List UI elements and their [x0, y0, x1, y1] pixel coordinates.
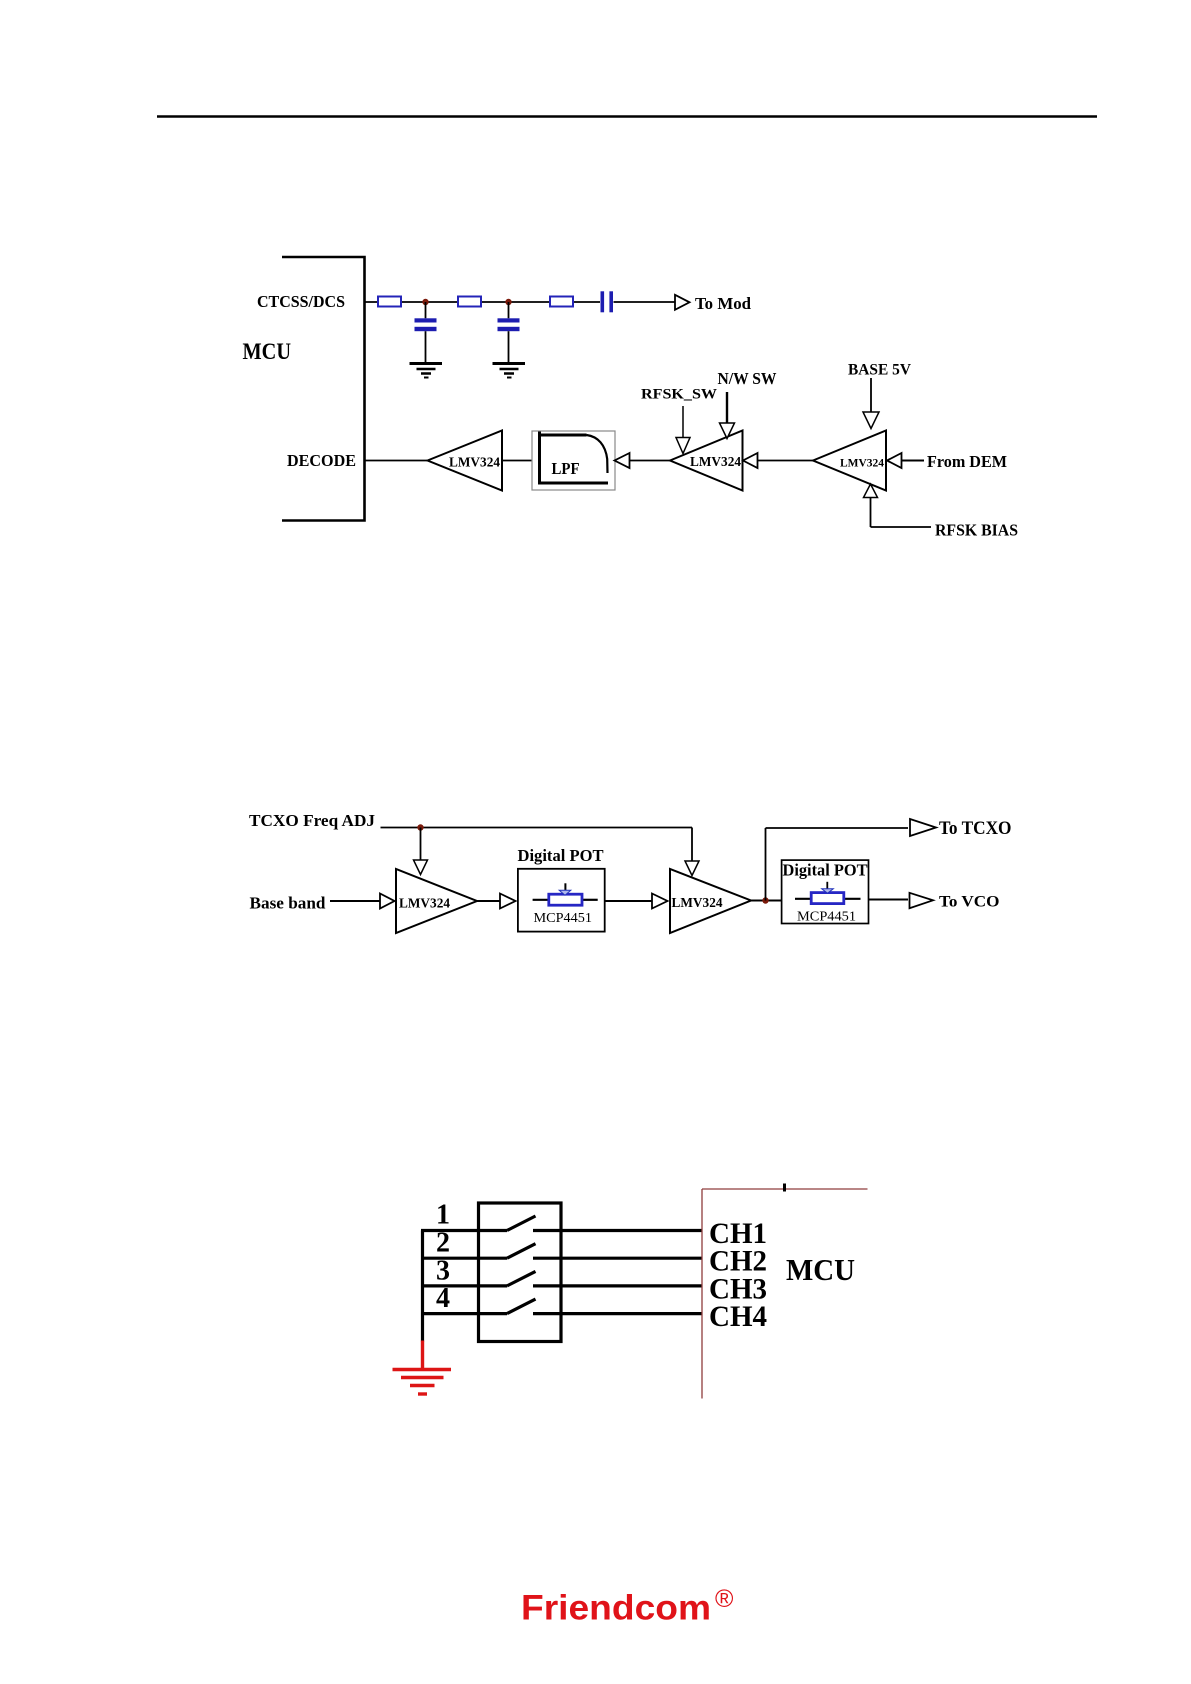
svg-text:Digital POT: Digital POT [518, 846, 604, 865]
svg-text:DECODE: DECODE [287, 451, 356, 470]
svg-text:2: 2 [436, 1228, 450, 1259]
svg-text:LMV324: LMV324 [840, 456, 884, 470]
svg-text:MCP4451: MCP4451 [534, 911, 593, 926]
svg-text:Digital POT: Digital POT [783, 861, 868, 880]
svg-text:LMV324: LMV324 [449, 455, 500, 470]
svg-text:LMV324: LMV324 [672, 895, 723, 910]
svg-text:To VCO: To VCO [939, 894, 1000, 911]
svg-text:RFSK BIAS: RFSK BIAS [935, 521, 1018, 540]
svg-text:To Mod: To Mod [695, 294, 752, 313]
svg-text:N/W SW: N/W SW [718, 369, 777, 388]
svg-text:To TCXO: To TCXO [939, 818, 1012, 839]
svg-text:3: 3 [436, 1255, 450, 1286]
svg-text:MCU: MCU [786, 1252, 855, 1287]
svg-text:RFSK_SW: RFSK_SW [641, 387, 717, 403]
svg-text:LPF: LPF [552, 459, 580, 478]
svg-text:LMV324: LMV324 [399, 896, 450, 911]
svg-text:From DEM: From DEM [927, 452, 1007, 471]
svg-text:MCU: MCU [243, 339, 292, 364]
svg-text:MCP4451: MCP4451 [797, 910, 856, 925]
svg-text:CTCSS/DCS: CTCSS/DCS [257, 292, 345, 311]
svg-text:CH4: CH4 [709, 1300, 767, 1333]
svg-text:BASE 5V: BASE 5V [848, 362, 911, 379]
svg-text:LMV324: LMV324 [690, 454, 741, 469]
svg-text:®: ® [715, 1585, 734, 1613]
svg-text:Friendcom: Friendcom [521, 1589, 711, 1628]
svg-text:4: 4 [436, 1283, 450, 1314]
svg-text:1: 1 [436, 1200, 450, 1231]
svg-text:TCXO Freq ADJ: TCXO Freq ADJ [249, 811, 376, 830]
svg-text:Base band: Base band [250, 894, 327, 913]
